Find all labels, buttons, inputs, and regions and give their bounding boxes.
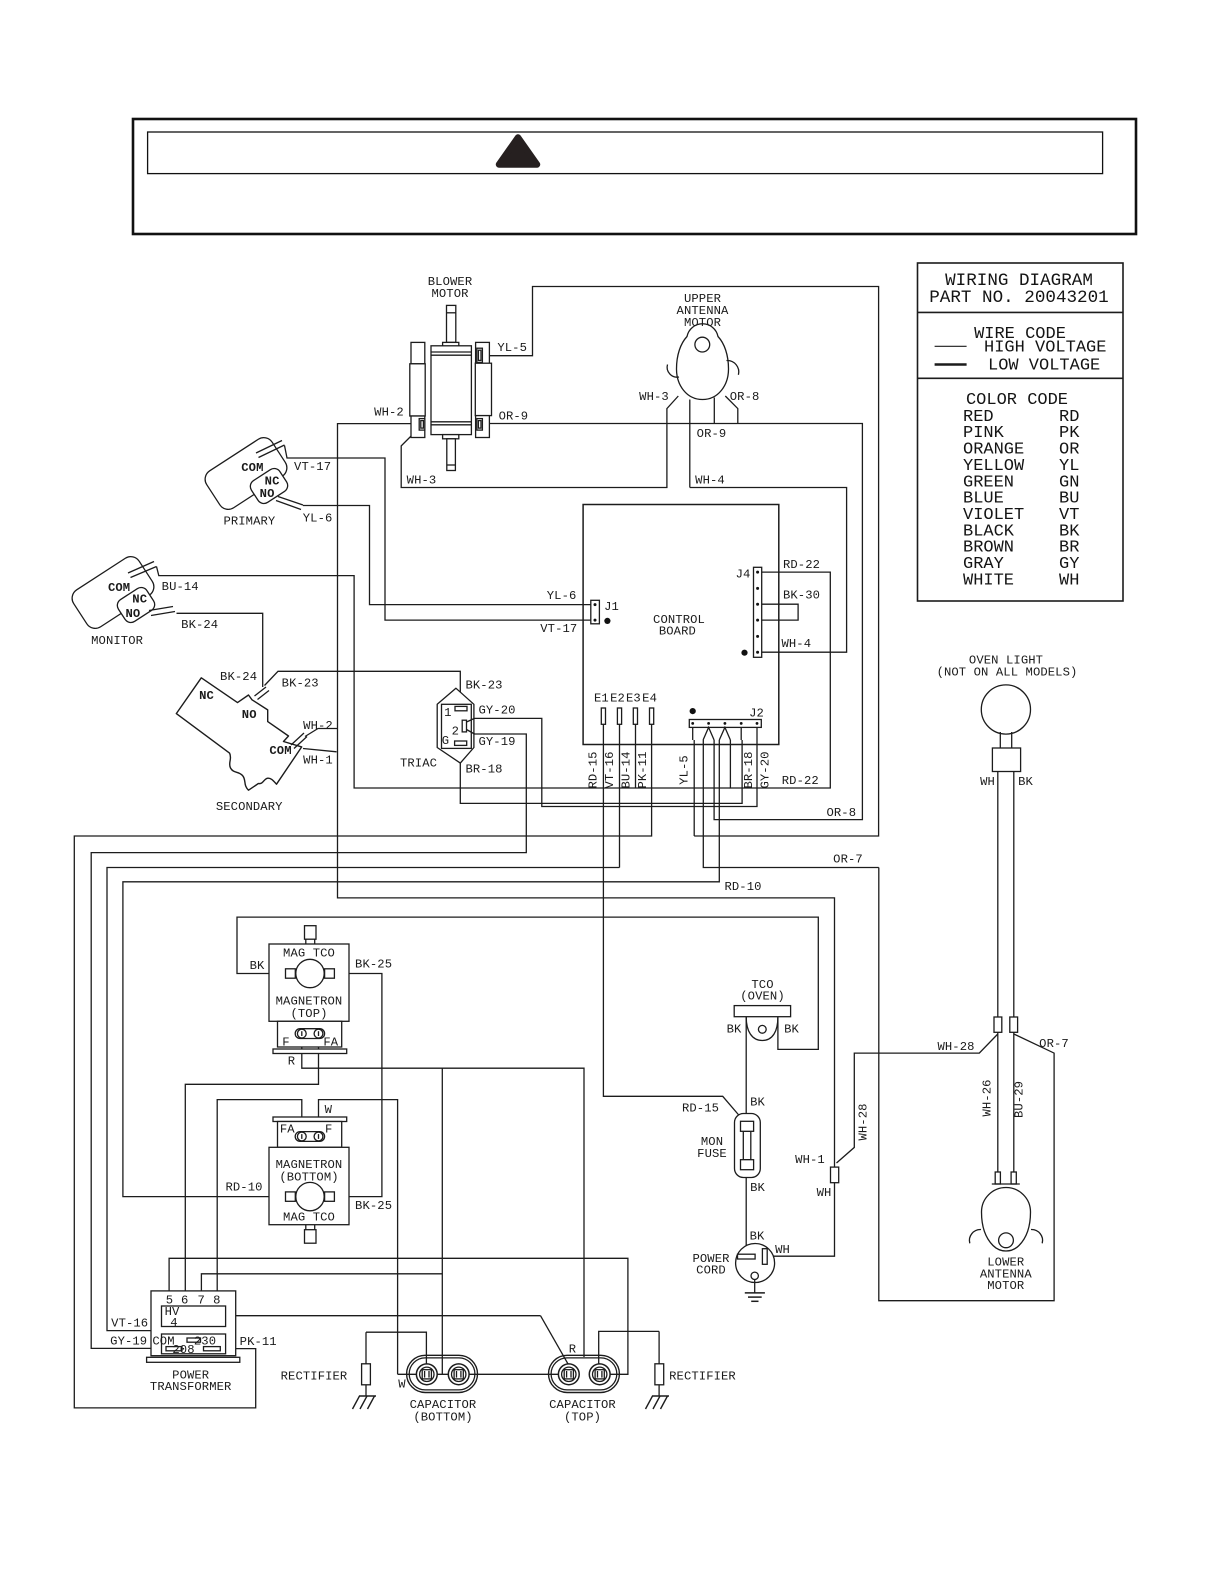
svg-text:SECONDARY: SECONDARY (216, 800, 283, 814)
power transformer (147, 1291, 240, 1362)
svg-text:COM: COM (241, 461, 263, 475)
svg-text:G: G (442, 734, 449, 748)
svg-text:OR-8: OR-8 (730, 390, 760, 404)
svg-text:NO: NO (260, 487, 275, 501)
svg-text:WH-1: WH-1 (303, 754, 333, 768)
wire OR-7: J2 pin 2 to oven light BK via lower antenna loop (703, 740, 1054, 1301)
svg-text:YL-5: YL-5 (497, 341, 527, 355)
junction dot at J1 (604, 618, 610, 624)
svg-text:OR-8: OR-8 (826, 806, 856, 820)
svg-text:NC: NC (132, 593, 147, 607)
svg-text:BK-25: BK-25 (355, 958, 392, 972)
svg-text:BU-29: BU-29 (1012, 1081, 1026, 1118)
secondary switch labels (199, 689, 292, 814)
svg-text:MOTOR: MOTOR (987, 1279, 1024, 1293)
svg-text:BR-18: BR-18 (465, 763, 502, 777)
WH-1 inline connector (795, 1153, 839, 1200)
svg-text:WH-4: WH-4 (695, 474, 725, 488)
svg-text:230: 230 (194, 1335, 216, 1349)
svg-text:OR-7: OR-7 (833, 853, 863, 867)
wire VT-17: primary switch COM to J1 pin 2 (285, 446, 592, 621)
svg-text:PRIMARY: PRIMARY (223, 515, 275, 529)
svg-text:MOTOR: MOTOR (684, 316, 721, 330)
svg-text:WH: WH (817, 1186, 832, 1200)
svg-text:WH-2: WH-2 (303, 719, 333, 733)
wire WH-3: blower motor to upper antenna motor (401, 396, 678, 488)
svg-text:8: 8 (213, 1294, 220, 1308)
connector J4 (736, 567, 762, 657)
svg-text:BK-24: BK-24 (220, 670, 257, 684)
connector J1 (591, 600, 619, 624)
svg-text:COM: COM (108, 581, 130, 595)
mon fuse labels (682, 1096, 766, 1196)
wire GY-19: triac terminal 2 to transformer 208 terminal (91, 730, 526, 1349)
control board (583, 505, 779, 745)
svg-text:WHITE: WHITE (963, 571, 1014, 590)
svg-text:COM: COM (152, 1335, 174, 1349)
svg-text:FA: FA (280, 1122, 295, 1136)
rectifier right wire to capacitor (599, 1331, 659, 1365)
junction dot at J4 (741, 650, 747, 656)
terminals E1 E2 E3 E4 (594, 692, 657, 725)
upper antenna motor (667, 324, 739, 400)
magnetron top labels (276, 947, 343, 1069)
svg-text:BK-25: BK-25 (355, 1199, 392, 1213)
secondary interlock switch (176, 678, 307, 790)
svg-text:BK: BK (784, 1023, 799, 1037)
svg-text:COM: COM (269, 744, 291, 758)
svg-text:WH-3: WH-3 (407, 473, 437, 487)
rectifier left wire to capacitor (366, 1332, 426, 1367)
wire HV: transformer HV winding to capacitor top left terminal (226, 1316, 569, 1366)
svg-text:RD-15: RD-15 (587, 751, 601, 788)
svg-text:2: 2 (452, 725, 459, 739)
lower antenna motor labels (980, 1256, 1032, 1294)
wire RD-15: E1 terminal to mon fuse (603, 724, 744, 1121)
wire: transformer pin 7 to HV capacitor line (201, 1274, 442, 1291)
monitor interlock switch (68, 553, 175, 632)
wire WH-2/WH-1: blower, secondary COM, to WH-1 connector and power cord (303, 424, 835, 1257)
legend box frame (918, 263, 1124, 601)
wire RD-22: J4 pin 1 loop to J2 (730, 572, 830, 788)
svg-text:BK: BK (750, 1230, 765, 1244)
svg-text:NO: NO (125, 607, 140, 621)
svg-text:E1: E1 (594, 692, 609, 706)
svg-text:7: 7 (197, 1294, 204, 1308)
svg-text:RD-10: RD-10 (724, 880, 761, 894)
svg-text:NC: NC (199, 689, 214, 703)
svg-text:6: 6 (181, 1294, 188, 1308)
primary switch labels (223, 461, 279, 529)
wire BK-25: magnetron top right tab to magnetron bottom right tab (334, 974, 382, 1197)
wire: magnetron top filament FA to transformer pin 6 (185, 1038, 318, 1291)
wire BR-18: triac gate to J2 pin 4 (460, 740, 742, 803)
svg-text:VT-17: VT-17 (294, 460, 331, 474)
wire: magnetron bottom filament FA to transformer pin 8 (217, 1100, 302, 1291)
legend title WIRING DIAGRAM PART NO. 20043201 (929, 271, 1109, 308)
power cord labels (692, 1230, 789, 1278)
capacitor top (549, 1355, 620, 1392)
svg-text:YL-5: YL-5 (678, 755, 692, 785)
wire VT-16: E2 terminal to transformer COM bar (107, 724, 620, 1338)
svg-text:E4: E4 (642, 692, 657, 706)
svg-text:(TOP): (TOP) (290, 1007, 327, 1021)
wire BK-24: monitor switch NO to secondary switch (177, 613, 263, 687)
svg-text:GY-20: GY-20 (478, 703, 515, 717)
ground (right rectifier) (646, 1396, 670, 1409)
triac (437, 688, 474, 763)
svg-text:BK-23: BK-23 (465, 678, 502, 692)
lower antenna motor (969, 1172, 1042, 1251)
label CONTROL BOARD (653, 613, 705, 639)
svg-text:FA: FA (323, 1036, 338, 1050)
svg-text:HIGH VOLTAGE: HIGH VOLTAGE (984, 339, 1106, 358)
wire: transformer pin 5 to capacitor top right terminal (169, 1258, 628, 1374)
svg-text:TRANSFORMER: TRANSFORMER (150, 1380, 232, 1394)
svg-text:OR-7: OR-7 (1039, 1037, 1069, 1051)
svg-text:(OVEN): (OVEN) (740, 989, 784, 1003)
triac labels (400, 706, 459, 771)
svg-text:WH-28: WH-28 (937, 1040, 974, 1054)
magnetron top assembly (269, 926, 349, 1054)
svg-text:WH-3: WH-3 (639, 390, 669, 404)
svg-text:FUSE: FUSE (697, 1147, 727, 1161)
warning banner outer frame (133, 119, 1136, 234)
wire YL-5: blower motor to J2 pin 1 (482, 287, 879, 837)
svg-text:PK-11: PK-11 (636, 751, 650, 788)
power transformer labels (150, 1294, 232, 1395)
svg-text:BU-14: BU-14 (620, 751, 634, 788)
wire R: magnetron top filament to capacitor top (302, 1038, 584, 1374)
legend high voltage sample line (935, 345, 967, 347)
svg-text:RD-15: RD-15 (682, 1102, 719, 1116)
svg-text:BK: BK (1018, 775, 1033, 789)
ground (left rectifier) (353, 1396, 377, 1409)
svg-text:R: R (288, 1055, 295, 1069)
wire BU-14: monitor switch to E3 terminal (157, 567, 731, 789)
svg-text:W: W (325, 1103, 333, 1117)
wire GY-20: triac terminal 2 to J2 pin 5 (467, 718, 758, 806)
wire WH-4: upper antenna motor to J4 pin 6 (690, 400, 847, 653)
svg-text:E3: E3 (626, 692, 641, 706)
capacitor bottom labels (398, 1378, 476, 1425)
magnetron bottom assembly (269, 1117, 349, 1243)
svg-text:BK: BK (750, 1096, 765, 1110)
svg-text:RECTIFIER: RECTIFIER (669, 1370, 736, 1384)
svg-text:VT-16: VT-16 (603, 751, 617, 788)
svg-text:WH: WH (1059, 571, 1079, 590)
svg-text:E2: E2 (610, 692, 625, 706)
svg-text:BK-23: BK-23 (282, 677, 319, 691)
svg-text:R: R (569, 1343, 576, 1357)
wire: capacitor bottom to capacitor top link (398, 1373, 569, 1375)
magnetron bottom labels (276, 1103, 343, 1224)
power cord ground (745, 1280, 765, 1302)
svg-text:(BOTTOM): (BOTTOM) (279, 1171, 338, 1185)
svg-text:BK: BK (250, 959, 265, 973)
svg-text:WH-26: WH-26 (981, 1079, 995, 1116)
wire BK: magnetron top tab to TCO oven right terminal (237, 917, 818, 1049)
svg-text:GY-19: GY-19 (478, 735, 515, 749)
svg-text:BR-18: BR-18 (742, 751, 756, 788)
capacitor bottom (407, 1355, 478, 1392)
svg-text:RD-22: RD-22 (782, 774, 819, 788)
svg-text:BOARD: BOARD (659, 625, 696, 639)
svg-text:1: 1 (444, 706, 451, 720)
wire BK: TCO oven left terminal through mon fuse to power cord (745, 1017, 747, 1247)
svg-text:MONITOR: MONITOR (91, 634, 143, 648)
legend color code list (963, 391, 1080, 590)
wire RD-10: J2 pin 3 to magnetron bottom left tab (123, 740, 719, 1197)
svg-text:CORD: CORD (696, 1264, 726, 1278)
label BLOWER MOTOR (428, 275, 472, 301)
svg-text:MOTOR: MOTOR (431, 287, 468, 301)
svg-text:(NOT ON ALL MODELS): (NOT ON ALL MODELS) (937, 666, 1078, 680)
svg-text:WH-4: WH-4 (781, 637, 811, 651)
svg-text:BK: BK (727, 1023, 742, 1037)
svg-text:F: F (325, 1122, 332, 1136)
svg-text:RD-22: RD-22 (783, 558, 820, 572)
svg-text:WH: WH (980, 775, 995, 789)
wire BK-23: secondary switch NO to triac terminal 1 (265, 671, 461, 708)
svg-text:PK-11: PK-11 (240, 1335, 277, 1349)
svg-text:OR-9: OR-9 (697, 427, 727, 441)
wire BK-30: J4 pin 3 to pin 4 jumper (762, 604, 798, 620)
svg-text:BK-24: BK-24 (181, 618, 218, 632)
svg-text:VT-17: VT-17 (540, 622, 577, 636)
svg-text:J4: J4 (736, 568, 751, 582)
wire WH-28: WH-1 connector to oven light WH terminal (837, 1034, 998, 1163)
svg-text:W: W (398, 1378, 406, 1392)
svg-text:WH: WH (775, 1243, 790, 1257)
svg-text:WH-28: WH-28 (857, 1103, 871, 1140)
svg-text:BK-30: BK-30 (783, 589, 820, 603)
svg-text:(BOTTOM): (BOTTOM) (413, 1410, 472, 1424)
junction dot near J2 (690, 708, 696, 714)
warning triangle icon (499, 138, 537, 165)
svg-text:NO: NO (242, 708, 257, 722)
svg-text:F: F (282, 1036, 289, 1050)
blower motor (410, 305, 492, 470)
svg-text:WH-1: WH-1 (795, 1153, 825, 1167)
svg-text:PART NO. 20043201: PART NO. 20043201 (929, 288, 1109, 308)
svg-text:208: 208 (172, 1343, 194, 1357)
rectifier left (281, 1332, 371, 1396)
svg-text:GY-19: GY-19 (110, 1335, 147, 1349)
svg-text:J2: J2 (749, 707, 764, 721)
monitor switch labels (91, 581, 147, 648)
svg-text:MAG TCO: MAG TCO (283, 947, 335, 961)
TCO oven labels (727, 978, 800, 1037)
TCO oven (734, 1006, 790, 1041)
svg-text:OR-9: OR-9 (499, 409, 529, 423)
oven light labels (937, 654, 1078, 790)
primary interlock switch (201, 434, 303, 513)
svg-text:YL-6: YL-6 (303, 512, 333, 526)
svg-text:LOW VOLTAGE: LOW VOLTAGE (988, 357, 1100, 376)
svg-text:RD-10: RD-10 (225, 1181, 262, 1195)
capacitor top labels (549, 1343, 616, 1425)
wire PK-11: E4 terminal to transformer 230 terminal (74, 724, 651, 1408)
svg-text:(TOP): (TOP) (564, 1410, 601, 1424)
legend wire code section (974, 325, 1106, 376)
warning banner inner frame (148, 132, 1103, 174)
connector J2 (689, 707, 764, 741)
label UPPER ANTENNA MOTOR (677, 292, 729, 330)
svg-text:MAG TCO: MAG TCO (283, 1211, 335, 1225)
svg-text:J1: J1 (604, 600, 619, 614)
legend low voltage sample line (935, 363, 967, 366)
svg-text:4: 4 (170, 1316, 177, 1330)
wire YL-6: primary switch NO to J1 pin 1 (303, 506, 591, 605)
svg-text:BK: BK (750, 1181, 765, 1195)
mon fuse (735, 1114, 761, 1178)
svg-text:VT-16: VT-16 (111, 1317, 148, 1331)
svg-text:BU-14: BU-14 (162, 580, 199, 594)
wire OR-9/OR-8: blower + upper antenna motor to J2 pin area (482, 396, 863, 820)
svg-text:YL-6: YL-6 (547, 589, 577, 603)
power cord plug (736, 1244, 775, 1283)
wire W: magnetron bottom filament F to capacitor bottom left terminal (319, 1100, 398, 1375)
svg-text:TRIAC: TRIAC (400, 757, 437, 771)
svg-text:WH-2: WH-2 (374, 406, 404, 420)
rectifier right (655, 1331, 736, 1396)
svg-text:GY-20: GY-20 (759, 751, 773, 788)
oven light bulb (981, 685, 1030, 1172)
svg-text:RECTIFIER: RECTIFIER (281, 1370, 348, 1384)
